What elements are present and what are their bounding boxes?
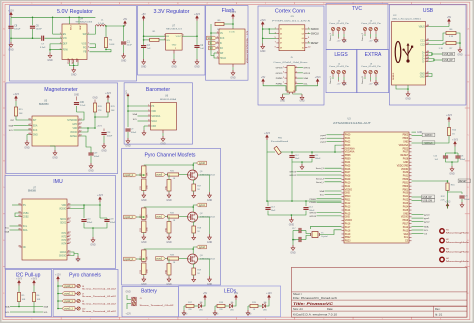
svg-text:SDA: SDA (5, 231, 10, 234)
svg-text:SDA: SDA (133, 113, 138, 116)
svg-text:+5V: +5V (123, 18, 128, 21)
svg-text:GNDANA: GNDANA (345, 147, 355, 150)
svg-text:PA12: PA12 (345, 202, 351, 205)
svg-text:PAD: PAD (75, 57, 78, 62)
svg-text:+3V3: +3V3 (452, 139, 458, 142)
svg-text:Servo_Z: Servo_Z (361, 32, 364, 41)
svg-text:PA14: PA14 (345, 209, 351, 212)
svg-text:GND: GND (101, 150, 107, 153)
svg-text:GND: GND (342, 84, 347, 86)
svg-text:+3V3: +3V3 (97, 126, 103, 128)
svg-text:SCK: SCK (220, 38, 225, 40)
svg-text:R12: R12 (140, 215, 142, 218)
svg-text:PWM5: PWM5 (276, 78, 283, 80)
svg-text:R11: R11 (140, 173, 142, 176)
svg-text:PS: PS (151, 106, 155, 108)
svg-text:GPIO2: GPIO2 (303, 68, 310, 70)
svg-text:pyro0: pyro0 (156, 174, 162, 177)
svg-text:R22: R22 (140, 228, 142, 231)
svg-text:GND: GND (141, 283, 147, 286)
svg-text:GPO: GPO (72, 124, 77, 126)
svg-text:+3V3: +3V3 (445, 201, 451, 204)
svg-text:SDA: SDA (33, 124, 38, 127)
svg-text:TVC: TVC (352, 6, 362, 12)
svg-text:01: 01 (280, 29, 282, 31)
svg-text:PA22: PA22 (403, 199, 409, 202)
svg-text:+3V3: +3V3 (31, 278, 37, 281)
svg-text:100nF: 100nF (110, 222, 116, 224)
svg-text:pyro1: pyro1 (199, 204, 205, 207)
svg-text:NC: NC (23, 247, 27, 249)
svg-text:MountingHole: MountingHole (446, 250, 471, 253)
svg-text:Serial_L: Serial_L (316, 181, 325, 184)
svg-text:FB: FB (83, 52, 86, 54)
svg-text:+5V: +5V (337, 41, 341, 43)
svg-text:HOLD: HOLD (220, 58, 227, 60)
svg-text:PB30: PB30 (403, 179, 409, 181)
svg-text:+3V3: +3V3 (446, 114, 452, 117)
svg-text:PB31: PB31 (403, 182, 409, 184)
svg-text:GND: GND (280, 101, 285, 103)
svg-text:+3V3: +3V3 (315, 76, 321, 79)
svg-text:Crystal: Crystal (321, 235, 328, 238)
svg-text:GND: GND (207, 283, 213, 286)
svg-text:LED: LED (230, 310, 234, 312)
svg-text:Conn_01x03_Pin: Conn_01x03_Pin (329, 66, 349, 68)
svg-text:PA10: PA10 (345, 181, 351, 184)
svg-text:GPIO8: GPIO8 (276, 68, 283, 70)
svg-text:LEGS: LEGS (334, 52, 348, 58)
svg-text:PA11: PA11 (345, 185, 351, 188)
svg-text:02: 02 (302, 29, 304, 31)
svg-text:Screw_Terminal_01x02: Screw_Terminal_01x02 (82, 304, 116, 306)
svg-text:CS: CS (220, 33, 224, 35)
svg-text:GND: GND (260, 50, 266, 53)
svg-text:PA13: PA13 (403, 229, 409, 232)
svg-text:VDDCORE: VDDCORE (397, 165, 409, 167)
svg-text:GND: GND (88, 170, 94, 173)
svg-text:PB23: PB23 (345, 241, 351, 243)
svg-text:GNDIO: GNDIO (59, 255, 67, 257)
svg-text:DEF: DEF (63, 44, 68, 46)
svg-text:SWCLK: SWCLK (424, 143, 433, 145)
svg-text:05: 05 (280, 38, 282, 40)
svg-text:+12V: +12V (266, 292, 272, 295)
svg-text:GND: GND (90, 244, 96, 247)
svg-text:PA12: PA12 (403, 226, 409, 229)
svg-text:2.2uF: 2.2uF (80, 105, 86, 107)
svg-text:GND: GND (74, 95, 79, 97)
svg-text:VOS: VOS (82, 44, 87, 46)
svg-text:Servo_E: Servo_E (361, 75, 364, 84)
svg-text:GND: GND (290, 252, 296, 255)
svg-text:PB00: PB00 (403, 186, 409, 188)
svg-text:FSW: FSW (63, 50, 69, 52)
svg-text:PB22: PB22 (345, 237, 351, 239)
svg-text:+5V: +5V (234, 292, 239, 295)
svg-text:GND: GND (403, 162, 408, 164)
svg-text:Rev:: Rev: (435, 307, 441, 311)
svg-text:GND: GND (171, 66, 177, 69)
svg-text:PA17: PA17 (345, 226, 351, 229)
svg-text:100nF: 100nF (87, 222, 93, 224)
svg-text:PA16: PA16 (345, 223, 351, 226)
svg-text:VDD: VDD (73, 128, 78, 130)
svg-text:PA04: PA04 (345, 161, 351, 164)
svg-text:VDD: VDD (151, 111, 156, 113)
svg-text:FerriteBead: FerriteBead (271, 140, 289, 143)
svg-text:IMU: IMU (53, 179, 63, 185)
svg-text:100nF: 100nF (36, 29, 43, 31)
svg-text:Pyro channels: Pyro channels (69, 273, 101, 279)
svg-text:GND: GND (141, 66, 147, 69)
svg-text:100nF: 100nF (107, 136, 113, 138)
svg-text:+3V3: +3V3 (194, 13, 200, 16)
svg-text:GND: GND (76, 260, 81, 262)
svg-text:RESET: RESET (459, 181, 467, 183)
svg-text:KiCad E.D.A. eeschema 7.0.10: KiCad E.D.A. eeschema 7.0.10 (293, 313, 338, 317)
svg-text:GND: GND (71, 74, 77, 77)
svg-text:pyro0_1: pyro0_1 (65, 285, 74, 288)
svg-text:pyro2: pyro2 (321, 141, 327, 144)
svg-text:Sheet: /: Sheet: / (293, 292, 302, 296)
svg-text:100K: 100K (109, 44, 115, 46)
svg-text:1uF: 1uF (147, 48, 151, 50)
svg-text:INT: INT (33, 120, 37, 122)
svg-text:PA25: PA25 (403, 209, 409, 212)
svg-text:Battery: Battery (141, 289, 157, 295)
svg-text:GND: GND (33, 134, 38, 136)
svg-text:R23: R23 (140, 270, 142, 273)
svg-text:SDA: SDA (303, 77, 308, 80)
svg-text:+3V3: +3V3 (97, 194, 103, 197)
svg-text:+3V3: +3V3 (105, 92, 111, 95)
svg-text:GND: GND (166, 241, 172, 244)
svg-text:ATSAMD21G18A-AUT: ATSAMD21G18A-AUT (333, 121, 371, 125)
svg-text:MountingHole: MountingHole (446, 260, 471, 263)
svg-text:GPIO5: GPIO5 (309, 213, 316, 215)
svg-text:+5V: +5V (369, 84, 373, 86)
svg-text:+3V3: +3V3 (260, 19, 266, 22)
svg-text:SDI/SDA: SDI/SDA (151, 115, 161, 118)
svg-text:EN: EN (63, 34, 67, 36)
svg-text:SWDIO: SWDIO (425, 135, 433, 137)
svg-text:Id: 1/1: Id: 1/1 (435, 313, 443, 317)
svg-text:08: 08 (302, 43, 304, 45)
svg-text:R41: R41 (165, 186, 167, 189)
svg-text:PB09: PB09 (345, 159, 351, 161)
svg-text:SDA: SDA (44, 306, 49, 309)
svg-text:pyro2: pyro2 (199, 246, 205, 249)
svg-text:10: 10 (302, 47, 304, 49)
svg-text:PA30: PA30 (403, 171, 409, 174)
svg-text:10K: 10K (111, 110, 115, 112)
svg-text:U1 - W25Q128JVSIM: U1 - W25Q128JVSIM (246, 31, 248, 63)
svg-text:pyro0: pyro0 (424, 214, 430, 217)
svg-text:PWM1: PWM1 (309, 199, 316, 201)
svg-text:+5V: +5V (369, 41, 373, 43)
svg-text:VIN: VIN (166, 40, 170, 42)
svg-text:SCL: SCL (23, 226, 28, 228)
svg-text:PB17: PB17 (403, 224, 409, 226)
svg-text:1uF: 1uF (200, 48, 204, 50)
svg-text:USB: USB (423, 8, 434, 14)
svg-text:PB22: PB22 (403, 148, 409, 150)
svg-text:100nF: 100nF (94, 156, 100, 158)
svg-text:Conn_01x03_Pin: Conn_01x03_Pin (329, 23, 349, 25)
svg-text:5.1K: 5.1K (439, 48, 444, 50)
svg-text:GND: GND (405, 98, 411, 101)
svg-text:Serial_Z: Serial_Z (316, 177, 325, 180)
svg-text:VDDIO: VDDIO (401, 217, 408, 219)
svg-text:GND: GND (420, 73, 425, 75)
svg-text:PA08: PA08 (345, 175, 351, 178)
svg-text:SWCLK: SWCLK (311, 34, 320, 36)
svg-text:PA24: PA24 (403, 205, 409, 208)
svg-text:PA19: PA19 (345, 233, 351, 236)
svg-text:Conn_01x03_Pin: Conn_01x03_Pin (361, 23, 381, 25)
svg-text:PA18: PA18 (345, 229, 351, 232)
svg-text:PA06: PA06 (345, 168, 351, 171)
svg-text:GPIO3: GPIO3 (303, 73, 310, 75)
svg-text:CSB2: CSB2 (23, 216, 30, 218)
svg-text:+5V: +5V (337, 84, 341, 86)
svg-text:pyro2: pyro2 (156, 258, 162, 261)
svg-text:pyro3_1: pyro3_1 (65, 308, 74, 311)
svg-text:GPIO3: GPIO3 (289, 172, 296, 174)
svg-text:VDDIO: VDDIO (70, 132, 77, 134)
svg-text:USB_DM: USB_DM (423, 201, 433, 203)
svg-text:10K: 10K (37, 299, 41, 301)
svg-text:VDD: VDD (62, 205, 67, 207)
svg-text:07: 07 (280, 43, 282, 45)
svg-text:SHIELD: SHIELD (393, 72, 395, 80)
svg-text:PA28: PA28 (403, 158, 409, 161)
svg-text:PG: PG (83, 48, 87, 50)
svg-text:Conn_02x04_Odd_Even: Conn_02x04_Odd_Even (273, 62, 308, 64)
svg-text:pyro0_2: pyro0_2 (125, 174, 134, 177)
svg-text:03: 03 (280, 33, 282, 35)
svg-text:Cortex Conn: Cortex Conn (275, 8, 305, 14)
svg-text:Barometer: Barometer (146, 87, 170, 93)
svg-text:R21: R21 (140, 186, 142, 189)
svg-text:VDDIO: VDDIO (59, 208, 66, 210)
svg-text:V_IOD: V_IOD (229, 32, 236, 34)
svg-text:GND: GND (92, 98, 97, 100)
svg-text:SDA: SDA (403, 233, 408, 236)
svg-text:SDA: SDA (23, 229, 28, 232)
svg-text:pyro0: pyro0 (321, 134, 327, 137)
svg-text:D-: D- (422, 61, 425, 63)
svg-text:BMM350: BMM350 (39, 103, 49, 106)
svg-text:GND: GND (141, 241, 147, 244)
svg-text:GND: GND (166, 199, 172, 202)
svg-text:3.3V Regulator: 3.3V Regulator (154, 9, 190, 15)
svg-text:ADSEL: ADSEL (70, 135, 78, 138)
svg-text:GND: GND (214, 314, 219, 316)
svg-text:SDA: SDA (5, 306, 10, 309)
svg-text:SCL: SCL (404, 237, 409, 239)
svg-text:pyro2_1: pyro2_1 (65, 300, 74, 303)
svg-text:SDA: SDA (320, 190, 325, 193)
svg-text:GNDA: GNDA (60, 251, 67, 254)
svg-text:pyro1: pyro1 (156, 216, 162, 219)
svg-text:SDA: SDA (424, 225, 429, 228)
svg-text:R42: R42 (165, 228, 167, 231)
svg-text:R13: R13 (140, 257, 142, 260)
svg-text:PA01: PA01 (345, 137, 351, 140)
svg-text:MountingHole: MountingHole (446, 241, 471, 244)
svg-text:SDA: SDA (9, 125, 14, 128)
svg-text:06: 06 (302, 38, 304, 40)
svg-text:Screw_Terminal_01x02: Screw_Terminal_01x02 (82, 296, 116, 298)
svg-text:MS5611-01BA: MS5611-01BA (160, 98, 177, 101)
svg-text:PA15: PA15 (345, 212, 351, 215)
svg-text:+5V: +5V (203, 292, 208, 295)
svg-text:GND: GND (8, 49, 14, 52)
svg-text:Screw_Terminal_01x02: Screw_Terminal_01x02 (82, 289, 116, 291)
svg-text:VDDANA: VDDANA (345, 151, 355, 154)
svg-text:10K: 10K (22, 299, 26, 301)
svg-text:SO: SO (220, 48, 224, 50)
svg-text:Date:: Date: (327, 307, 333, 311)
svg-text:+3V3: +3V3 (13, 93, 19, 96)
svg-text:LED: LED (263, 310, 267, 312)
svg-text:Size: A4: Size: A4 (293, 307, 303, 311)
svg-text:PB02: PB02 (403, 135, 409, 137)
svg-text:C30: C30 (80, 102, 85, 104)
svg-text:AVIN: AVIN (79, 26, 82, 31)
svg-text:PA03: PA03 (345, 144, 351, 147)
svg-text:LED: LED (199, 310, 203, 312)
svg-text:VOUT: VOUT (176, 36, 183, 38)
svg-text:INT1: INT1 (61, 233, 67, 235)
svg-text:GND: GND (207, 241, 213, 244)
svg-text:+5V: +5V (261, 76, 266, 79)
svg-text:PVIN: PVIN (69, 26, 71, 31)
svg-text:GND: GND (166, 283, 172, 286)
svg-text:GND: GND (449, 173, 455, 176)
svg-text:pyro1: pyro1 (321, 137, 327, 140)
svg-text:PS: PS (23, 205, 27, 207)
svg-text:pyro1: pyro1 (424, 217, 430, 220)
svg-text:SCK: SCK (33, 130, 38, 132)
svg-text:CSB1: CSB1 (23, 213, 30, 215)
svg-text:GND: GND (47, 59, 53, 62)
svg-text:GND: GND (345, 193, 350, 195)
svg-text:pyro2: pyro2 (424, 221, 430, 224)
svg-text:+12V: +12V (55, 274, 61, 277)
svg-text:BMI088: BMI088 (28, 191, 37, 193)
svg-text:10K: 10K (19, 113, 23, 115)
svg-text:GND: GND (342, 41, 347, 43)
svg-text:GND: GND (299, 101, 304, 103)
svg-text:GND: GND (345, 217, 350, 219)
svg-text:10uF: 10uF (295, 158, 300, 160)
svg-text:File: PicassoVC_Kicad.sch: File: PicassoVC_Kicad.sch (293, 296, 338, 300)
svg-text:100nF: 100nF (315, 158, 321, 160)
svg-text:17K: 17K (98, 110, 102, 112)
svg-text:GND: GND (194, 66, 200, 69)
svg-text:+5V: +5V (141, 13, 146, 16)
svg-text:FTSH-105-01-L-DV-K: FTSH-105-01-L-DV-K (272, 21, 311, 23)
svg-text:PA00: PA00 (345, 134, 351, 137)
svg-text:INT2: INT2 (61, 236, 67, 238)
svg-text:PA27: PA27 (403, 151, 409, 154)
svg-text:GND: GND (121, 60, 127, 63)
svg-text:Servo_X: Servo_X (329, 32, 332, 41)
svg-text:VDDIN: VDDIN (401, 169, 408, 171)
svg-text:VDDIO: VDDIO (345, 220, 352, 222)
svg-text:5.0V Regulator: 5.0V Regulator (57, 9, 93, 15)
svg-text:PA21: PA21 (403, 195, 409, 198)
svg-text:pyro1_2: pyro1_2 (125, 216, 134, 219)
svg-text:PWM5: PWM5 (309, 202, 316, 204)
svg-text:100nF: 100nF (131, 132, 137, 134)
svg-text:+3V3: +3V3 (16, 278, 22, 281)
svg-text:100K: 100K (147, 226, 149, 231)
svg-text:EXTRA: EXTRA (365, 52, 382, 58)
svg-text:SDO2: SDO2 (60, 222, 67, 224)
svg-text:GPIO5: GPIO5 (276, 73, 283, 75)
svg-text:GND: GND (183, 314, 188, 316)
svg-text:MIC5319-3.3: MIC5319-3.3 (166, 28, 182, 30)
svg-text:GND: GND (230, 77, 236, 80)
svg-text:PA02: PA02 (345, 140, 351, 143)
svg-text:INT3: INT3 (61, 240, 67, 242)
svg-text:VDDANA: VDDANA (399, 144, 409, 147)
svg-text:pyro2_2: pyro2_2 (125, 258, 134, 261)
svg-text:PB03: PB03 (403, 138, 409, 140)
svg-text:Servo_L: Servo_L (329, 75, 332, 84)
svg-text:CS: CS (424, 233, 428, 235)
svg-text:PWM1: PWM1 (276, 83, 283, 85)
svg-text:GND: GND (141, 199, 147, 202)
svg-text:PA20: PA20 (403, 192, 409, 195)
svg-text:pyro0: pyro0 (199, 162, 205, 165)
svg-text:Pyro Channel Mosfets: Pyro Channel Mosfets (144, 153, 195, 159)
svg-text:GND: GND (374, 41, 379, 43)
svg-text:Screw_Terminal_01x02: Screw_Terminal_01x02 (82, 311, 116, 313)
svg-text:VDDIO: VDDIO (345, 189, 352, 191)
svg-text:100K: 100K (147, 268, 149, 273)
svg-text:VBUS: VBUS (419, 26, 426, 28)
svg-text:11: 11 (287, 91, 289, 93)
svg-text:D-: D- (422, 55, 425, 57)
svg-text:GND: GND (417, 132, 422, 134)
svg-text:100uF: 100uF (464, 199, 470, 201)
svg-text:R43: R43 (165, 270, 167, 273)
svg-text:GND: GND (374, 84, 379, 86)
svg-text:CS: CS (405, 241, 409, 243)
svg-text:04: 04 (302, 33, 304, 35)
svg-text:10uF: 10uF (271, 210, 276, 212)
svg-text:GND: GND (420, 76, 425, 78)
svg-text:SCLK: SCLK (151, 121, 157, 123)
svg-text:RESET: RESET (311, 43, 319, 45)
svg-text:GND: GND (160, 143, 166, 146)
svg-text:GND: GND (403, 141, 408, 143)
svg-text:3.3nF: 3.3nF (40, 47, 46, 49)
svg-text:GND: GND (289, 224, 295, 227)
svg-text:WP: WP (220, 53, 224, 55)
svg-text:+3V3: +3V3 (264, 132, 270, 135)
svg-text:PB16: PB16 (403, 220, 409, 222)
svg-text:GND: GND (52, 157, 58, 160)
svg-text:GND: GND (403, 213, 408, 215)
svg-text:12: 12 (293, 91, 295, 93)
svg-text:+12V: +12V (8, 9, 14, 12)
